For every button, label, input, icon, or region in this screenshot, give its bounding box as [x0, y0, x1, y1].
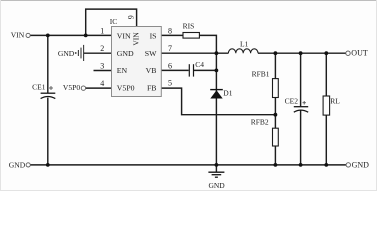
svg-text:GND: GND — [117, 49, 134, 58]
svg-text:GND: GND — [9, 160, 26, 169]
svg-text:OUT: OUT — [351, 49, 368, 58]
svg-text:FB: FB — [147, 83, 157, 92]
svg-text:SW: SW — [145, 49, 157, 58]
svg-text:V5P0: V5P0 — [63, 83, 81, 92]
svg-text:VIN: VIN — [132, 32, 141, 46]
svg-text:8: 8 — [168, 26, 172, 35]
svg-text:D1: D1 — [223, 89, 232, 98]
svg-text:VIN: VIN — [117, 32, 131, 41]
svg-text:1: 1 — [100, 26, 104, 35]
svg-text:RFB1: RFB1 — [252, 70, 270, 79]
svg-text:3: 3 — [100, 61, 104, 70]
svg-text:RFB2: RFB2 — [251, 118, 269, 127]
svg-text:GND: GND — [352, 161, 370, 170]
svg-text:7: 7 — [168, 44, 172, 53]
svg-text:IS: IS — [150, 32, 157, 41]
svg-text:2: 2 — [100, 44, 104, 53]
svg-text:EN: EN — [117, 66, 128, 75]
svg-text:RL: RL — [330, 96, 340, 105]
svg-text:V5P0: V5P0 — [117, 83, 135, 92]
svg-text:C4: C4 — [195, 60, 204, 69]
svg-text:IC: IC — [110, 17, 118, 26]
svg-text:VB: VB — [146, 66, 157, 75]
svg-text:9: 9 — [127, 15, 136, 19]
svg-text:6: 6 — [168, 61, 172, 70]
svg-text:L1: L1 — [240, 39, 249, 48]
svg-text:4: 4 — [100, 79, 104, 88]
svg-text:RIS: RIS — [183, 22, 195, 31]
svg-text:5: 5 — [168, 79, 172, 88]
svg-text:CE1: CE1 — [32, 83, 46, 92]
svg-text:GND: GND — [58, 49, 75, 58]
svg-text:GND: GND — [208, 181, 225, 190]
svg-text:VIN: VIN — [11, 30, 25, 39]
svg-text:CE2: CE2 — [285, 97, 299, 106]
